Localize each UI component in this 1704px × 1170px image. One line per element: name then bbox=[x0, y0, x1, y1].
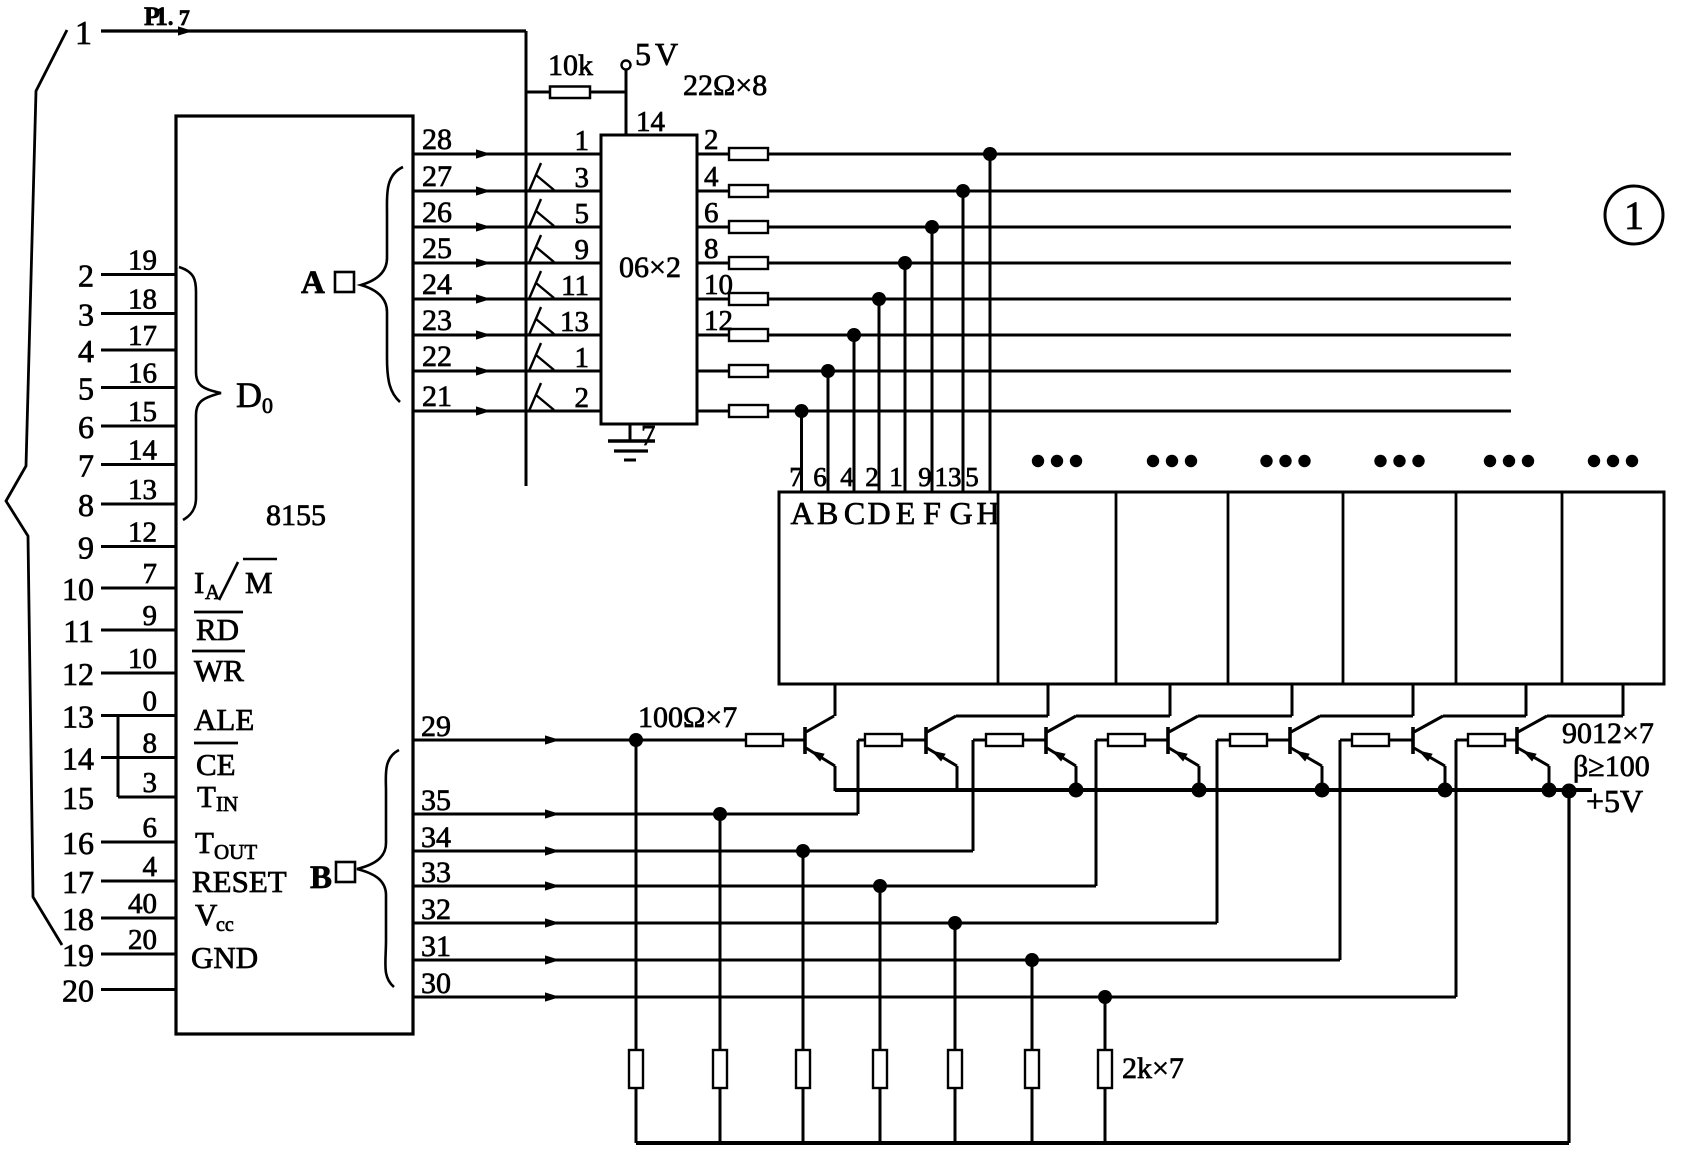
ellipsis dots above display 4 bbox=[1260, 455, 1310, 467]
svg-text:A: A bbox=[301, 265, 325, 301]
svg-text:D: D bbox=[867, 495, 890, 531]
svg-text:cc: cc bbox=[216, 914, 234, 936]
wire vertical drop to display pin (bus 5) bbox=[878, 299, 881, 492]
svg-text:4: 4 bbox=[704, 161, 719, 193]
svg-text:29: 29 bbox=[421, 710, 451, 743]
svg-text:33: 33 bbox=[421, 856, 451, 889]
svg-text:7: 7 bbox=[78, 448, 94, 484]
svg-text:40: 40 bbox=[128, 888, 157, 920]
svg-text:2: 2 bbox=[575, 382, 590, 414]
svg-text:2: 2 bbox=[865, 462, 879, 492]
svg-text:7: 7 bbox=[789, 462, 803, 492]
svg-text:A: A bbox=[205, 580, 221, 604]
wire/node connector pin 3 (8155 pin 18) bbox=[78, 284, 176, 333]
svg-text:2: 2 bbox=[78, 258, 94, 294]
svg-text:10: 10 bbox=[128, 643, 157, 675]
svg-text:19: 19 bbox=[62, 937, 94, 973]
wire/node connector pin 13 (8155 pin 0) bbox=[62, 686, 176, 735]
svg-text:24: 24 bbox=[422, 268, 452, 301]
svg-text:3: 3 bbox=[78, 297, 94, 333]
label TOUT pin name bbox=[195, 825, 257, 864]
resistor 2k #4 with leads bbox=[873, 886, 887, 1143]
svg-text:13: 13 bbox=[935, 462, 962, 492]
transistor Q2 9012 PNP bbox=[902, 684, 1048, 791]
svg-text:7: 7 bbox=[143, 558, 158, 590]
svg-text:32: 32 bbox=[421, 893, 451, 926]
labels segment A-H bbox=[790, 495, 999, 531]
svg-text:9: 9 bbox=[918, 462, 932, 492]
svg-text:5: 5 bbox=[78, 371, 94, 407]
wire bottom return rail bbox=[636, 1141, 1569, 1145]
svg-text:2: 2 bbox=[704, 124, 719, 156]
display divider 3 bbox=[1115, 492, 1118, 684]
wire/node connector pin 4 (8155 pin 17) bbox=[78, 320, 176, 369]
svg-text:17: 17 bbox=[128, 320, 157, 352]
svg-text:4: 4 bbox=[840, 462, 854, 492]
wire P1.7 vertical drop bbox=[525, 31, 528, 486]
svg-text:β≥100: β≥100 bbox=[1573, 750, 1650, 783]
svg-text:20: 20 bbox=[62, 973, 94, 1009]
label TIN pin name bbox=[197, 779, 238, 816]
wire/node connector pin 6 (8155 pin 15) bbox=[78, 396, 176, 445]
svg-text:8: 8 bbox=[704, 233, 719, 265]
resistor 2k #1 with leads bbox=[629, 740, 643, 1143]
label Vcc pin name bbox=[195, 897, 234, 936]
resistor 100ohm #1 bbox=[746, 734, 783, 746]
wire 8155 pin 32 digit drive line bbox=[413, 893, 1217, 930]
svg-text:5: 5 bbox=[575, 198, 590, 230]
wire riser line 31 to base resistor bbox=[1340, 740, 1352, 960]
brace D0 data-bus bbox=[179, 267, 221, 520]
wire vertical drop to display pin (bus 6) bbox=[853, 335, 856, 492]
resistor 2k #5 with leads bbox=[948, 923, 962, 1143]
svg-text:RESET: RESET bbox=[192, 864, 287, 899]
svg-text:31: 31 bbox=[421, 930, 451, 963]
svg-text:15: 15 bbox=[62, 780, 94, 816]
svg-text:CE: CE bbox=[196, 747, 236, 782]
brace B port bbox=[357, 750, 399, 987]
svg-text:T: T bbox=[197, 779, 216, 814]
labels display pin numbers 7 6 4 2 1 9 13 5 bbox=[789, 462, 979, 492]
wire 8155 pin 29 digit drive line bbox=[413, 710, 746, 747]
svg-text:1: 1 bbox=[575, 125, 590, 157]
wire 8155 pin 28 to 7406 input 1 bbox=[413, 123, 601, 159]
wire/node connector pin 18 (8155 pin 40) bbox=[62, 888, 176, 937]
svg-text:16: 16 bbox=[128, 358, 157, 390]
svg-text:6: 6 bbox=[143, 812, 158, 844]
display divider 4 bbox=[1227, 492, 1230, 684]
svg-text:11: 11 bbox=[561, 270, 589, 302]
wire riser line 32 to base resistor bbox=[1217, 740, 1230, 923]
wire/node connector pin 17 (8155 pin 4) bbox=[62, 851, 176, 900]
svg-text:06×2: 06×2 bbox=[619, 251, 681, 284]
svg-text:0: 0 bbox=[143, 686, 158, 718]
wire 7406 output 2 segment bus line bbox=[697, 124, 1511, 161]
svg-text:1: 1 bbox=[575, 342, 590, 374]
resistor 100ohm #4 bbox=[1108, 734, 1145, 746]
resistor 2k #2 with leads bbox=[713, 814, 727, 1143]
svg-text:20: 20 bbox=[128, 924, 157, 956]
svg-text:G: G bbox=[949, 495, 972, 531]
wire/node connector pin 11 (8155 pin 9) bbox=[63, 600, 176, 649]
svg-text:RD: RD bbox=[196, 612, 239, 647]
svg-text:12: 12 bbox=[704, 305, 733, 337]
wire vertical drop to display pin (bus 1) bbox=[989, 154, 992, 492]
svg-text:C: C bbox=[844, 495, 865, 531]
label IA/M pin name bbox=[194, 559, 277, 604]
svg-text:4: 4 bbox=[143, 851, 158, 883]
resistor 2k #6 with leads bbox=[1025, 960, 1039, 1143]
wire 8155 pin 27 to 7406 input 3 bbox=[413, 160, 601, 196]
wire/node connector pin 9 (8155 pin 12) bbox=[78, 517, 176, 566]
svg-text:27: 27 bbox=[422, 160, 452, 193]
wire/node connector pin 20 (8155 pin direct) bbox=[62, 973, 176, 1009]
svg-text:M: M bbox=[245, 565, 273, 600]
wire vertical drop to display pin (bus 4) bbox=[904, 263, 907, 492]
svg-text:8155: 8155 bbox=[266, 499, 326, 532]
wire/node connector pin 10 (8155 pin 7) bbox=[62, 558, 176, 607]
svg-text:3: 3 bbox=[575, 162, 590, 194]
svg-text:22: 22 bbox=[422, 340, 452, 373]
wire 7406 output 4 segment bus line bbox=[697, 161, 1511, 198]
svg-text:B: B bbox=[310, 860, 332, 896]
wire P1.7 line from pin1 bbox=[101, 29, 526, 32]
svg-text:6: 6 bbox=[813, 462, 827, 492]
svg-text:8: 8 bbox=[78, 487, 94, 523]
wire/node connector pin 15 (8155 pin 3) bbox=[62, 767, 176, 816]
wire 7406 output 7 segment bus line bbox=[697, 364, 1511, 378]
svg-text:35: 35 bbox=[421, 784, 451, 817]
ground symbol bbox=[608, 441, 655, 460]
wire 7406 output 8 segment bus line bbox=[697, 404, 1511, 418]
svg-text:100Ω×7: 100Ω×7 bbox=[638, 701, 737, 734]
resistor 100ohm #6 bbox=[1352, 734, 1389, 746]
svg-text:10k: 10k bbox=[548, 49, 593, 82]
wire/node connector pin 14 (8155 pin 8) bbox=[62, 728, 176, 777]
svg-text:T: T bbox=[195, 825, 214, 860]
junction emitter at 1445 bbox=[1438, 783, 1453, 798]
wire 8155 pin 23 to 7406 input 13 bbox=[413, 304, 601, 340]
svg-text:7: 7 bbox=[641, 420, 656, 452]
wire vertical drop to display pin (bus 3) bbox=[931, 227, 934, 492]
wire 7406 output 6 segment bus line bbox=[697, 197, 1511, 234]
junction emitter at 1199 bbox=[1192, 783, 1207, 798]
junction emitter at 1549 bbox=[1542, 783, 1557, 798]
wire 8155 pin 35 digit drive line bbox=[413, 784, 858, 821]
resistor 100ohm #5 bbox=[1230, 734, 1267, 746]
label A port bbox=[301, 265, 354, 301]
svg-text:26: 26 bbox=[422, 196, 452, 229]
svg-text:GND: GND bbox=[191, 940, 258, 975]
transistor Q1 9012 PNP bbox=[783, 684, 835, 791]
label B port bbox=[310, 860, 355, 896]
svg-text:8: 8 bbox=[143, 728, 158, 760]
svg-text:23: 23 bbox=[422, 304, 452, 337]
svg-text:1: 1 bbox=[75, 15, 92, 52]
svg-text:19: 19 bbox=[128, 245, 157, 277]
ellipsis dots above display 6 bbox=[1484, 455, 1534, 467]
ellipsis dots above display 3 bbox=[1147, 455, 1197, 467]
svg-text:10: 10 bbox=[62, 571, 94, 607]
svg-text:P1. 7: P1. 7 bbox=[144, 2, 190, 31]
transistor Q3 9012 PNP bbox=[1023, 684, 1170, 791]
wire/node connector pin 2 (8155 pin 19) bbox=[78, 245, 176, 294]
label figure 1 circled bbox=[1605, 186, 1663, 244]
svg-text:14: 14 bbox=[62, 741, 94, 777]
svg-text:21: 21 bbox=[422, 380, 452, 413]
svg-text:ALE: ALE bbox=[194, 702, 254, 737]
svg-text:16: 16 bbox=[62, 825, 94, 861]
junction +5V corner bbox=[1562, 784, 1577, 799]
junction emitter at 1322 bbox=[1315, 783, 1330, 798]
svg-text:12: 12 bbox=[128, 517, 157, 549]
wire 7406 output 10 segment bus line bbox=[697, 269, 1511, 306]
svg-text:22Ω×8: 22Ω×8 bbox=[683, 69, 767, 102]
wire 8155 pin 31 digit drive line bbox=[413, 930, 1340, 967]
wire/node connector pin 8 (8155 pin 13) bbox=[78, 474, 176, 523]
svg-text:11: 11 bbox=[63, 613, 94, 649]
wire 8155 pin 21 to 7406 input 2 bbox=[413, 380, 601, 416]
svg-text:9: 9 bbox=[78, 530, 94, 566]
svg-text:OUT: OUT bbox=[214, 840, 257, 864]
svg-text:14: 14 bbox=[128, 435, 158, 467]
transistor Q7 9012 PNP bbox=[1505, 684, 1623, 791]
display divider 7 bbox=[1561, 492, 1564, 684]
svg-text:1: 1 bbox=[889, 462, 903, 492]
svg-text:I: I bbox=[194, 565, 204, 600]
svg-text:WR: WR bbox=[194, 653, 244, 688]
junction arrow on P1.7 wire bbox=[178, 26, 193, 35]
svg-text:34: 34 bbox=[421, 821, 451, 854]
ellipsis dots above display 7 bbox=[1588, 455, 1638, 467]
svg-text:B: B bbox=[817, 495, 838, 531]
svg-text:12: 12 bbox=[62, 656, 94, 692]
brace A port bbox=[361, 167, 403, 402]
display divider 5 bbox=[1342, 492, 1345, 684]
svg-text:IN: IN bbox=[216, 792, 238, 816]
transistor Q6 9012 PNP bbox=[1389, 684, 1526, 791]
wire 8155 pin 33 digit drive line bbox=[413, 856, 1096, 893]
svg-text:F: F bbox=[923, 495, 941, 531]
wire link joining pins 13-15 bbox=[117, 716, 120, 798]
wire/node connector pin 16 (8155 pin 6) bbox=[62, 812, 176, 861]
svg-text:V: V bbox=[195, 897, 218, 932]
wire 8155 pin 25 to 7406 input 9 bbox=[413, 232, 601, 268]
label RD pin name bbox=[194, 612, 243, 647]
resistor 100ohm #3 bbox=[986, 734, 1023, 746]
svg-text:25: 25 bbox=[422, 232, 452, 265]
wire 7406 output 12 segment bus line bbox=[697, 305, 1511, 342]
wire riser line 30 to base resistor bbox=[1456, 740, 1468, 997]
svg-text:5V: 5V bbox=[635, 36, 678, 72]
svg-text:17: 17 bbox=[62, 864, 94, 900]
resistor 2k #7 with leads bbox=[1098, 997, 1112, 1143]
ellipsis dots above display 5 bbox=[1374, 455, 1424, 467]
display divider 6 bbox=[1455, 492, 1458, 684]
svg-text:9: 9 bbox=[575, 234, 590, 266]
wire/node connector pin 19 (8155 pin 20) bbox=[62, 924, 176, 973]
wire 8155 pin 24 to 7406 input 11 bbox=[413, 268, 601, 304]
node 5V terminal bbox=[622, 61, 631, 70]
label WR pin name bbox=[192, 651, 245, 688]
op-amp 7406 x2 inverter chip body bbox=[601, 135, 697, 424]
display divider 2 bbox=[997, 492, 1000, 684]
wire +5V rail bbox=[835, 788, 1592, 792]
resistor 10k bbox=[550, 87, 590, 99]
wire vertical drop to display pin (bus 7) bbox=[827, 371, 830, 492]
svg-text:2k×7: 2k×7 bbox=[1122, 1052, 1184, 1085]
wire 8155 pin 30 digit drive line bbox=[413, 967, 1456, 1004]
svg-text:6: 6 bbox=[78, 409, 94, 445]
wire 10k left lead bbox=[526, 91, 550, 94]
svg-text:28: 28 bbox=[422, 123, 452, 156]
svg-text:15: 15 bbox=[128, 396, 157, 428]
svg-text:3: 3 bbox=[143, 767, 158, 799]
svg-text:18: 18 bbox=[128, 284, 157, 316]
wire +5V right vertical bbox=[1567, 790, 1570, 1143]
wire 8155 pin 26 to 7406 input 5 bbox=[413, 196, 601, 232]
wire 7406 output 8 segment bus line bbox=[697, 233, 1511, 270]
resistor 100ohm #2 bbox=[865, 734, 902, 746]
label CE pin name bbox=[194, 743, 238, 782]
wire 10k right lead bbox=[590, 91, 626, 94]
wire vertical drop to display pin (bus 8) bbox=[800, 411, 803, 492]
svg-text:9012×7: 9012×7 bbox=[1562, 717, 1654, 750]
svg-text:18: 18 bbox=[62, 901, 94, 937]
junction emitter at 1076 bbox=[1069, 783, 1084, 798]
svg-text:6: 6 bbox=[704, 197, 719, 229]
op-amp 8155 chip body bbox=[176, 116, 413, 1034]
svg-text:1: 1 bbox=[1624, 193, 1644, 238]
transistor Q5 9012 PNP bbox=[1267, 684, 1413, 791]
wire 5V to 7406 pin14 bbox=[625, 70, 628, 136]
svg-text:13: 13 bbox=[62, 699, 94, 735]
svg-text:13: 13 bbox=[128, 474, 157, 506]
display module row outline bbox=[779, 492, 1664, 684]
ellipsis dots above display 2 bbox=[1032, 455, 1082, 467]
wire 8155 pin 22 to 7406 input 1 bbox=[413, 340, 601, 376]
resistor 2k #3 with leads bbox=[796, 851, 810, 1143]
connector big left brace (8031 socket) bbox=[6, 30, 67, 945]
svg-text:10: 10 bbox=[704, 269, 733, 301]
svg-text:13: 13 bbox=[560, 306, 589, 338]
svg-text:4: 4 bbox=[78, 333, 94, 369]
wire/node connector pin 5 (8155 pin 16) bbox=[78, 358, 176, 407]
transistor Q4 9012 PNP bbox=[1145, 684, 1292, 791]
wire/node connector pin 7 (8155 pin 14) bbox=[78, 435, 176, 484]
wire riser line 35 to base resistor bbox=[858, 740, 865, 814]
svg-text:30: 30 bbox=[421, 967, 451, 1000]
svg-text:9: 9 bbox=[143, 600, 158, 632]
svg-text:14: 14 bbox=[636, 106, 666, 138]
svg-text:+5V: +5V bbox=[1586, 783, 1643, 819]
wire 8155 pin 34 digit drive line bbox=[413, 821, 973, 858]
wire riser line 33 to base resistor bbox=[1096, 740, 1108, 886]
svg-text:5: 5 bbox=[965, 462, 979, 492]
wire 7406 pin7 ground stub bbox=[629, 424, 632, 441]
svg-text:H: H bbox=[976, 495, 999, 531]
wire/node connector pin 12 (8155 pin 10) bbox=[62, 643, 176, 692]
wire vertical drop to display pin (bus 2) bbox=[962, 191, 965, 492]
resistor 100ohm #7 bbox=[1468, 734, 1505, 746]
wire riser line 34 to base resistor bbox=[973, 740, 986, 851]
svg-text:A: A bbox=[790, 495, 813, 531]
svg-text:E: E bbox=[896, 495, 916, 531]
